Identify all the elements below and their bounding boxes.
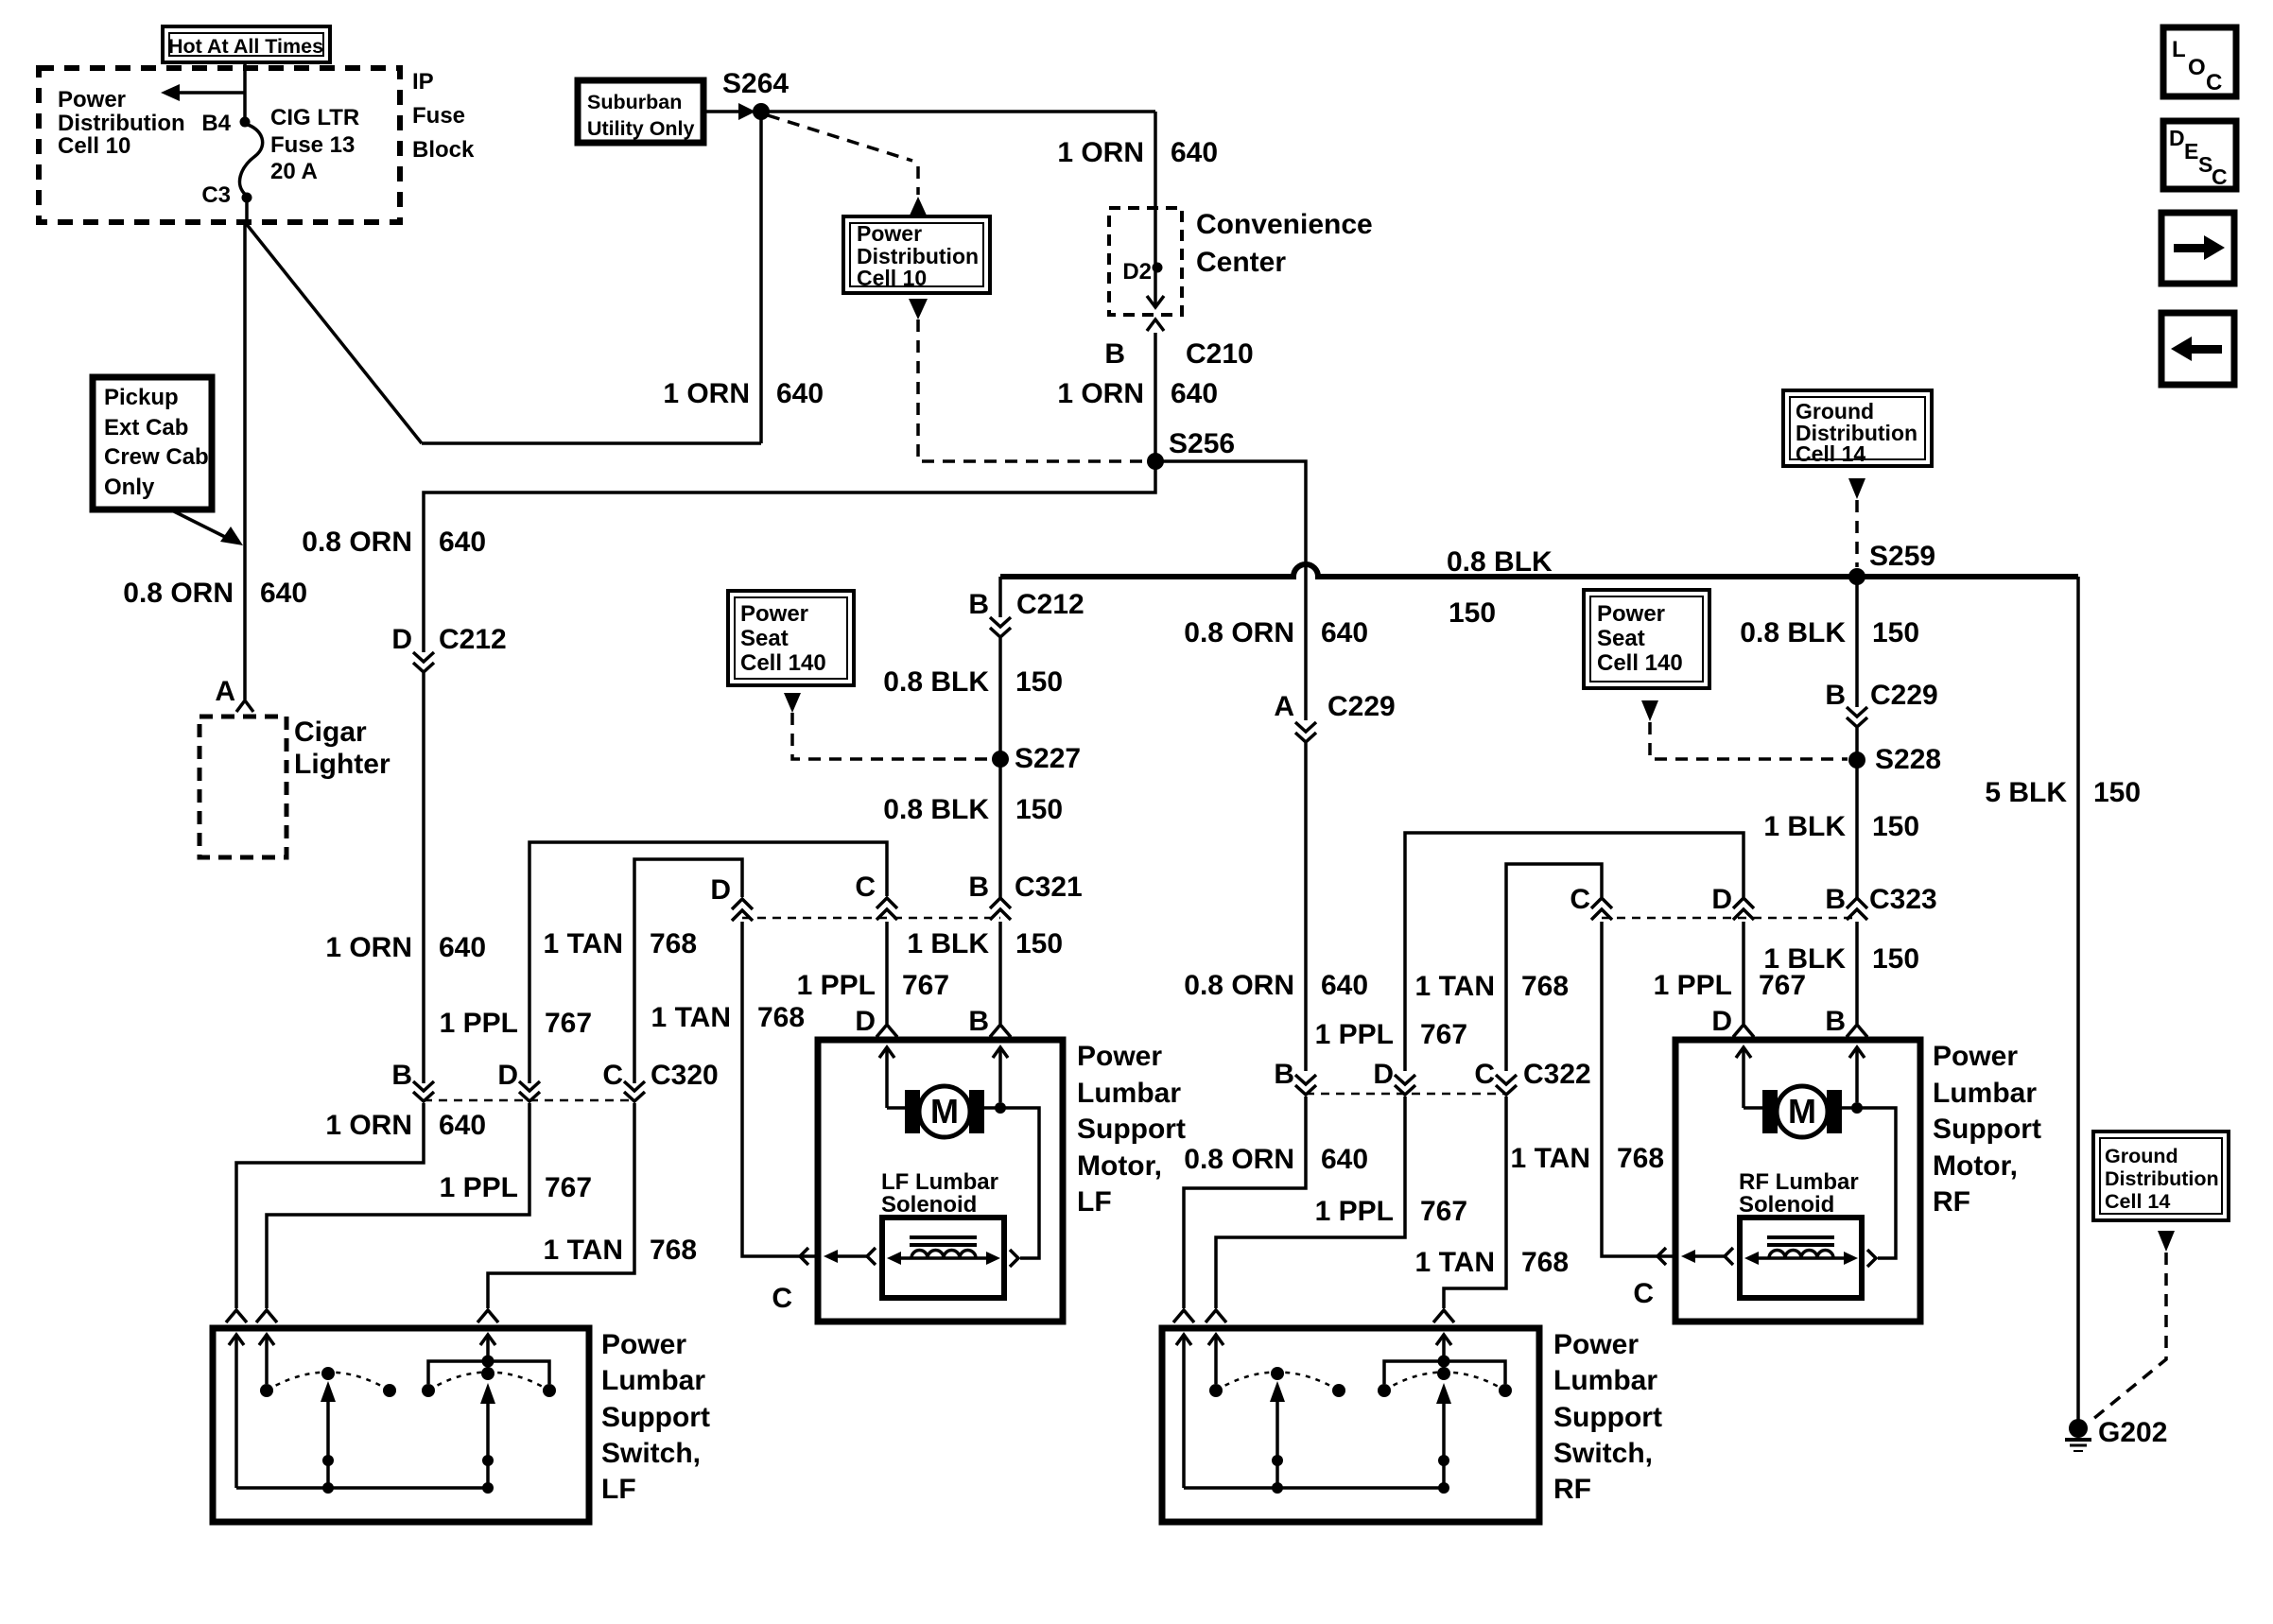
solenoid L1 double arrow: [898, 1256, 989, 1260]
svg-text:1 TAN: 1 TAN: [1511, 1143, 1590, 1174]
wire B C212 to S227: [998, 638, 1002, 759]
svg-text:0.8 ORN: 0.8 ORN: [1184, 617, 1294, 648]
wire horizontal run to fuse diagonal: [422, 441, 761, 445]
svg-text:Support: Support: [1933, 1114, 2041, 1145]
box Power Lumbar Support Switch RF: [1162, 1328, 1539, 1522]
arrow down from Ground Distribution top (triangle): [1848, 478, 1865, 499]
wire S264 to convenience center (top run): [761, 110, 1155, 113]
svg-text:640: 640: [1321, 970, 1368, 1001]
svg-text:Solenoid: Solenoid: [1739, 1192, 1834, 1218]
solenoid L1 coil: [911, 1251, 976, 1259]
box Power Lumbar Support Switch LF: [213, 1328, 589, 1522]
switch S1b contacts: [422, 1384, 435, 1397]
connector C210 fork: [1147, 320, 1164, 331]
pin B4 dot: [240, 117, 251, 128]
svg-text:1 ORN: 1 ORN: [1057, 378, 1144, 409]
svg-text:768: 768: [1521, 971, 1569, 1002]
svg-text:D: D: [1711, 884, 1732, 915]
svg-text:Seat: Seat: [1597, 626, 1645, 651]
switch S2b bracket: [1384, 1361, 1505, 1384]
svg-text:Cell 14: Cell 14: [2105, 1190, 2170, 1213]
svg-text:Motor,: Motor,: [1933, 1150, 2018, 1182]
svg-text:Crew Cab: Crew Cab: [104, 444, 209, 470]
legend box arrow right: [2161, 213, 2234, 284]
svg-text:C: C: [602, 1060, 623, 1091]
svg-text:B: B: [1274, 1059, 1294, 1090]
svg-text:Support: Support: [1077, 1114, 1186, 1145]
svg-text:Support: Support: [1553, 1402, 1662, 1433]
svg-text:C322: C322: [1523, 1059, 1591, 1090]
arrow to Power Distribution Cell 10 (left): [178, 91, 245, 95]
wire fuse C3 to cigar lighter A: [245, 199, 249, 222]
wire C322 C up to C323 C (1 TAN 768): [1506, 864, 1602, 1071]
svg-text:Power: Power: [857, 221, 922, 246]
svg-text:C320: C320: [651, 1060, 719, 1091]
svg-text:1 TAN: 1 TAN: [544, 1235, 623, 1266]
switch S1a pin1 wire inside: [229, 1335, 244, 1345]
svg-text:640: 640: [1321, 1144, 1368, 1175]
connector pin 3 arrow (LF switch): [477, 1310, 498, 1322]
connector C320 dashed line: [424, 1099, 634, 1102]
connector C C321 arrow: [876, 898, 897, 920]
svg-text:O: O: [2188, 55, 2206, 80]
arrow down from Power Distribution (triangle): [909, 299, 928, 320]
svg-text:150: 150: [1015, 928, 1063, 959]
arrow up to S264 (triangle): [909, 197, 928, 217]
svg-text:S259: S259: [1869, 541, 1935, 572]
svg-text:B: B: [1825, 1006, 1846, 1037]
switch S2a contacts: [1209, 1384, 1223, 1397]
svg-text:C229: C229: [1870, 680, 1938, 711]
wire RF motor pin C entry: [1655, 1254, 1675, 1258]
switch S2a dashed arc: [1216, 1373, 1339, 1391]
svg-text:0.8 ORN: 0.8 ORN: [1184, 1144, 1294, 1175]
connector D C323 arrow: [1733, 898, 1754, 920]
arrow inside RF motor pin C: [1693, 1254, 1725, 1258]
legend box DESC: [2163, 121, 2236, 189]
svg-text:Lumbar: Lumbar: [1933, 1078, 2037, 1109]
node S259 dot: [1848, 568, 1865, 585]
wire D C322 to RF switch pin 2: [1216, 1097, 1405, 1308]
svg-text:C: C: [772, 1283, 792, 1314]
svg-text:1 TAN: 1 TAN: [1415, 1247, 1495, 1278]
node S228 dot: [1848, 752, 1865, 769]
wire S228 to B C323: [1855, 760, 1859, 898]
motor M2 body circle: [1777, 1086, 1828, 1137]
wire B C323 to RF motor pin B: [1855, 922, 1859, 1024]
connector B C212 arrow: [990, 617, 1011, 637]
motor M2 junction dot: [1851, 1102, 1863, 1114]
svg-text:C212: C212: [439, 624, 507, 655]
svg-text:0.8 BLK: 0.8 BLK: [883, 794, 989, 825]
svg-text:C: C: [1474, 1059, 1495, 1090]
node S264 dot: [753, 103, 770, 120]
wire C C321 to LF motor pin D: [885, 922, 889, 1024]
svg-text:Only: Only: [104, 475, 155, 500]
svg-text:C323: C323: [1869, 884, 1937, 915]
motor M2 inner arrow D: [1736, 1047, 1751, 1058]
svg-text:Solenoid: Solenoid: [881, 1192, 977, 1218]
connector pin D arrow (LF motor top): [876, 1025, 897, 1037]
fuse CIG LTR Fuse 13 (element): [239, 124, 262, 196]
dashed box Convenience Center: [1109, 208, 1182, 315]
svg-text:B4: B4: [201, 111, 231, 136]
svg-text:1 ORN: 1 ORN: [1057, 137, 1144, 168]
svg-text:M: M: [930, 1092, 959, 1131]
svg-text:640: 640: [439, 1110, 486, 1141]
connector pin 1 arrow (LF switch): [226, 1310, 247, 1322]
box LF Lumbar Solenoid: [882, 1218, 1004, 1298]
svg-text:1 BLK: 1 BLK: [1763, 811, 1846, 842]
svg-text:C321: C321: [1015, 872, 1083, 903]
connector pin 1 arrow (RF switch): [1173, 1310, 1194, 1322]
arrow Pickup box to wire: [172, 510, 225, 537]
svg-text:Ground: Ground: [2105, 1145, 2178, 1167]
wire diagonal from fuse block: [245, 222, 422, 443]
connector B C229 arrow: [1847, 707, 1867, 727]
wire trunk 0.8 BLK 150 with hop: [1000, 564, 2078, 577]
wire S227 to B C321: [998, 759, 1002, 898]
svg-text:B: B: [968, 589, 989, 620]
solenoid L1 core bars: [910, 1235, 977, 1239]
svg-text:Center: Center: [1196, 247, 1286, 278]
wire C C322 to RF switch pin 3: [1444, 1097, 1506, 1308]
svg-text:M: M: [1788, 1092, 1816, 1131]
svg-text:768: 768: [650, 1235, 697, 1266]
switch S1b pole arrow: [480, 1383, 495, 1404]
switch S2b dashed arc: [1384, 1373, 1505, 1391]
svg-text:Fuse 13: Fuse 13: [270, 132, 355, 158]
connector pin B arrow (RF motor top): [1847, 1025, 1867, 1037]
svg-text:Ext Cab: Ext Cab: [104, 415, 188, 441]
wire D C212 to B C320: [422, 673, 425, 1083]
wire trunk left drop to B C212: [998, 577, 1002, 617]
svg-text:1 ORN: 1 ORN: [325, 1110, 412, 1141]
legend arrow left: [2192, 345, 2222, 354]
svg-text:0.8 BLK: 0.8 BLK: [1740, 617, 1846, 648]
svg-text:B: B: [1825, 884, 1846, 915]
switch S1a pin2 wire inside: [259, 1335, 274, 1345]
wire C320 D to C321 C (1 PPL 767): [529, 842, 887, 1083]
motor M1 inner arrow B: [993, 1047, 1008, 1058]
wire S259 to B C229: [1855, 577, 1859, 707]
legend box LOC: [2163, 27, 2236, 96]
dashed wire Power Seat left to S227: [792, 713, 991, 759]
solenoid L2 coil: [1769, 1251, 1833, 1259]
svg-text:768: 768: [757, 1002, 805, 1033]
svg-text:Fuse: Fuse: [412, 103, 465, 129]
wire C C320 to LF switch pin 3: [488, 1103, 634, 1308]
svg-text:767: 767: [545, 1172, 592, 1203]
arrow down from Ground Distribution bottom (triangle): [2158, 1231, 2175, 1252]
ground G202 symbol: [2065, 1438, 2091, 1442]
box Pickup Ext Cab Crew Cab Only: [93, 377, 212, 510]
svg-text:S227: S227: [1015, 743, 1081, 774]
svg-text:RF: RF: [1553, 1474, 1591, 1505]
dashed box Cigar Lighter: [200, 717, 286, 857]
connector A fork (cigar lighter): [236, 700, 253, 712]
switch S1a dashed arc: [267, 1373, 390, 1391]
ground G202 dot: [2069, 1419, 2088, 1438]
svg-text:Lighter: Lighter: [294, 749, 390, 780]
dashed wire S264 to Power Distribution: [768, 115, 912, 161]
connector pin 3 arrow (RF switch): [1433, 1310, 1454, 1322]
svg-text:Seat: Seat: [740, 626, 789, 651]
svg-text:1 ORN: 1 ORN: [325, 932, 412, 963]
box Power Seat Cell 140 left (double border): [728, 591, 854, 685]
svg-text:1 TAN: 1 TAN: [651, 1002, 731, 1033]
wire S256 right branch: [1155, 461, 1306, 720]
svg-text:0.8 ORN: 0.8 ORN: [123, 578, 234, 609]
svg-text:640: 640: [439, 527, 486, 558]
connector C C323 arrow: [1591, 898, 1612, 920]
svg-text:Power: Power: [58, 87, 126, 112]
svg-text:S264: S264: [722, 68, 789, 99]
svg-text:150: 150: [1872, 617, 1919, 648]
svg-text:Cell 10: Cell 10: [857, 266, 927, 290]
switch S2b pin3 wire inside: [1436, 1335, 1451, 1345]
node S256 dot: [1147, 453, 1164, 470]
connector C C320 arrow: [624, 1081, 645, 1101]
solenoid L2 core bars: [1767, 1235, 1834, 1239]
svg-text:768: 768: [1617, 1143, 1664, 1174]
dashed wire Ground Distribution to S259: [1855, 500, 1859, 567]
chevron right of RF solenoid: [1867, 1250, 1876, 1267]
svg-text:1 BLK: 1 BLK: [907, 928, 989, 959]
svg-text:Distribution: Distribution: [58, 111, 185, 136]
switch S1b bracket: [428, 1361, 549, 1384]
svg-text:1 PPL: 1 PPL: [440, 1008, 518, 1039]
switch S1b pin3 wire inside: [480, 1335, 495, 1345]
box Power Seat Cell 140 right (double border): [1584, 590, 1709, 688]
switch S1b dashed arc: [428, 1373, 549, 1391]
dashed wire Ground Distribution to G202: [2093, 1253, 2166, 1419]
connector D C212 arrow: [413, 652, 434, 672]
connector A C229 arrow: [1295, 722, 1316, 742]
svg-text:Cell 14: Cell 14: [1796, 441, 1865, 466]
svg-text:C: C: [855, 872, 876, 903]
switch S2a pin1 wire inside: [1176, 1335, 1191, 1345]
connector C C322 arrow: [1496, 1075, 1517, 1095]
node S227 dot: [992, 751, 1009, 768]
switch S1a pole arrow: [321, 1381, 336, 1402]
motor M2 brushes: [1762, 1090, 1778, 1133]
svg-text:L: L: [2172, 37, 2186, 62]
connector C323 dashed line: [1602, 917, 1857, 920]
connector B C321 arrow: [990, 898, 1011, 920]
svg-text:D: D: [2169, 126, 2185, 150]
svg-text:A: A: [1274, 691, 1294, 722]
motor M1 brushes: [905, 1090, 920, 1133]
svg-text:20 A: 20 A: [270, 159, 318, 184]
switch S2b pole arrow: [1436, 1383, 1451, 1404]
wire M1 loop to solenoid: [1000, 1108, 1039, 1258]
connector pin B arrow (LF motor top): [990, 1025, 1011, 1037]
svg-text:Power: Power: [1553, 1329, 1639, 1360]
wire C C323 to RF motor pin C: [1602, 922, 1655, 1256]
svg-text:1 PPL: 1 PPL: [1315, 1019, 1394, 1050]
svg-text:150: 150: [1449, 597, 1496, 629]
switch S1b junction dot: [482, 1356, 495, 1368]
svg-text:Suburban: Suburban: [587, 91, 682, 113]
wire S256 left branch to D C212: [424, 461, 1155, 652]
svg-text:767: 767: [545, 1008, 592, 1039]
svg-text:Hot At All Times: Hot At All Times: [168, 35, 323, 58]
svg-text:D: D: [1711, 1006, 1732, 1037]
switch S2a pole arrow: [1270, 1381, 1285, 1402]
svg-text:640: 640: [776, 378, 824, 409]
svg-text:CIG LTR: CIG LTR: [270, 105, 359, 130]
wire M2 loop to solenoid: [1857, 1108, 1896, 1258]
svg-text:C229: C229: [1327, 691, 1396, 722]
svg-text:767: 767: [902, 970, 949, 1001]
svg-text:C: C: [2206, 70, 2222, 95]
wire LF motor pin C entry: [797, 1254, 818, 1258]
svg-text:1 PPL: 1 PPL: [797, 970, 876, 1001]
svg-text:C: C: [1570, 884, 1590, 915]
wire A C229 to B C322: [1304, 743, 1308, 1071]
svg-text:Block: Block: [412, 137, 475, 163]
legend arrow right: [2174, 244, 2204, 252]
motor M1 junction dot: [995, 1102, 1006, 1114]
box Ground Distribution Cell 14 top (double border): [1783, 390, 1932, 466]
svg-text:1 BLK: 1 BLK: [1763, 943, 1846, 975]
wire C320 C to C321 D (1 TAN 768): [634, 859, 742, 1083]
svg-text:Cell 10: Cell 10: [58, 133, 130, 159]
svg-text:640: 640: [1171, 137, 1218, 168]
svg-text:C: C: [2212, 164, 2228, 189]
svg-text:A: A: [215, 676, 235, 707]
box Power Lumbar Support Motor RF: [1675, 1040, 1920, 1322]
connector C321 dashed line: [742, 917, 1000, 920]
arrow down from Power Seat right (triangle): [1641, 700, 1658, 721]
svg-text:150: 150: [1015, 666, 1063, 698]
connector B C320 arrow: [413, 1081, 434, 1101]
svg-text:Cell 140: Cell 140: [740, 650, 826, 676]
svg-text:Motor,: Motor,: [1077, 1150, 1162, 1182]
wire S264 down to junction: [759, 112, 763, 443]
connector C322 dashed line: [1306, 1093, 1506, 1096]
svg-text:Pickup: Pickup: [104, 385, 179, 410]
svg-text:S256: S256: [1169, 428, 1235, 459]
node D2 dot: [1153, 263, 1163, 273]
box Power Distribution Cell 10 (double border): [843, 216, 990, 293]
svg-text:Convenience: Convenience: [1196, 209, 1373, 240]
svg-text:D: D: [855, 1006, 876, 1037]
svg-text:Lumbar: Lumbar: [1553, 1365, 1657, 1396]
switch S2a pin2 wire inside: [1208, 1335, 1223, 1345]
arrow down from Power Seat left (triangle): [784, 693, 801, 713]
svg-text:B: B: [391, 1060, 412, 1091]
svg-text:150: 150: [2093, 777, 2141, 808]
legend box arrow left: [2161, 313, 2234, 385]
svg-text:RF: RF: [1933, 1186, 1970, 1218]
svg-text:640: 640: [1321, 617, 1368, 648]
svg-text:150: 150: [1872, 943, 1919, 975]
connector pin 2 arrow (LF switch): [256, 1310, 277, 1322]
box RF Lumbar Solenoid: [1740, 1218, 1862, 1298]
wire C322 D up to C323 D (1 PPL 767): [1405, 833, 1744, 1071]
svg-text:767: 767: [1420, 1019, 1467, 1050]
motor M2 inner arrow B: [1849, 1047, 1865, 1058]
switch S2b contacts: [1378, 1384, 1391, 1397]
svg-text:1 PPL: 1 PPL: [440, 1172, 518, 1203]
svg-text:Cigar: Cigar: [294, 717, 367, 748]
connector D C320 arrow: [519, 1081, 540, 1101]
svg-text:1 PPL: 1 PPL: [1654, 970, 1732, 1001]
svg-text:IP: IP: [412, 69, 434, 95]
svg-text:C3: C3: [201, 182, 231, 208]
svg-text:RF Lumbar: RF Lumbar: [1739, 1169, 1859, 1195]
connector pin 2 arrow (RF switch): [1206, 1310, 1226, 1322]
svg-text:Distribution: Distribution: [2105, 1167, 2219, 1190]
svg-text:LF: LF: [1077, 1186, 1112, 1218]
motor M1 inner arrow D: [879, 1047, 894, 1058]
wire D C321 to LF motor pin C: [742, 922, 797, 1256]
connector pin D arrow (RF motor top): [1733, 1025, 1754, 1037]
switch S1a contacts: [260, 1384, 273, 1397]
box Hot At All Times (double border): [163, 26, 330, 62]
svg-text:C210: C210: [1186, 338, 1254, 370]
svg-text:768: 768: [650, 928, 697, 959]
svg-text:D: D: [710, 874, 731, 906]
svg-text:768: 768: [1521, 1247, 1569, 1278]
svg-text:Power: Power: [1933, 1041, 2018, 1072]
wire B C229 to S228: [1855, 728, 1859, 760]
svg-text:Power: Power: [740, 601, 808, 627]
svg-text:1 ORN: 1 ORN: [663, 378, 750, 409]
svg-text:Support: Support: [601, 1402, 710, 1433]
svg-text:C: C: [1633, 1278, 1654, 1309]
svg-text:B: B: [1825, 680, 1846, 711]
svg-text:Switch,: Switch,: [1553, 1438, 1653, 1469]
wire B C321 to LF motor pin B: [998, 922, 1002, 1024]
connector B C323 arrow: [1847, 898, 1867, 920]
dashed box IP Fuse Block: [39, 68, 400, 222]
svg-text:767: 767: [1420, 1196, 1467, 1227]
svg-text:1 PPL: 1 PPL: [1315, 1196, 1394, 1227]
svg-text:B: B: [968, 872, 989, 903]
wire trunk right corner to G202: [2076, 577, 2080, 1421]
svg-text:D: D: [1373, 1059, 1394, 1090]
svg-text:LF Lumbar: LF Lumbar: [881, 1169, 998, 1195]
box Ground Distribution Cell 14 bottom (double border): [2093, 1132, 2229, 1220]
svg-text:640: 640: [260, 578, 307, 609]
connector D C322 arrow: [1395, 1075, 1415, 1095]
arrow Suburban to S264: [703, 110, 739, 113]
box Power Lumbar Support Motor LF: [818, 1040, 1063, 1322]
svg-text:B: B: [968, 1006, 989, 1037]
svg-text:B: B: [1104, 338, 1125, 370]
dashed wire Power Seat right to S228: [1650, 722, 1848, 759]
svg-text:Switch,: Switch,: [601, 1438, 701, 1469]
svg-text:Utility Only: Utility Only: [587, 117, 695, 140]
svg-text:E: E: [2184, 139, 2198, 164]
solenoid L2 double arrow: [1756, 1256, 1847, 1260]
pin C3 dot: [242, 193, 252, 203]
chevron right of LF solenoid: [1010, 1250, 1018, 1267]
arrow inside LF motor pin C: [836, 1254, 867, 1258]
motor M1 body circle: [919, 1086, 970, 1137]
wire D2 to connector C210 with arrow: [1154, 271, 1157, 304]
wire D C323 to RF motor pin D: [1742, 922, 1745, 1024]
svg-text:G202: G202: [2098, 1417, 2167, 1448]
svg-text:C212: C212: [1016, 589, 1084, 620]
svg-text:1 TAN: 1 TAN: [544, 928, 623, 959]
svg-text:0.8 ORN: 0.8 ORN: [302, 527, 412, 558]
svg-text:Cell 140: Cell 140: [1597, 650, 1683, 676]
svg-text:LF: LF: [601, 1474, 636, 1505]
